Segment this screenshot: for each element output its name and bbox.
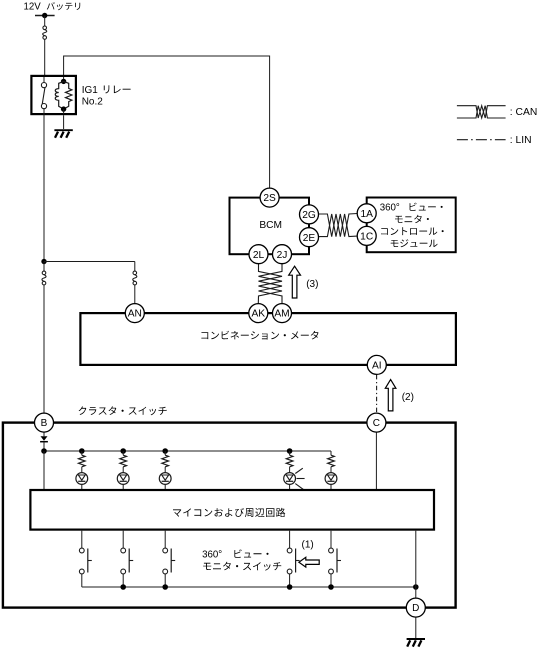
svg-text:(1): (1) — [302, 539, 314, 550]
pin 1A — [357, 204, 376, 223]
LED D2 — [122, 467, 124, 473]
svg-text:BCM: BCM — [259, 220, 282, 231]
fusible link F3 — [133, 271, 137, 275]
label cluster switch — [79, 406, 167, 415]
pin C — [367, 413, 386, 432]
battery node — [35, 15, 55, 17]
resistor R2 — [122, 451, 124, 455]
LED D4 — [289, 467, 291, 473]
wire F1 to relay — [44, 39, 46, 75]
svg-text:2E: 2E — [303, 233, 316, 244]
svg-text:2J: 2J — [277, 250, 288, 261]
pin 1C — [357, 226, 376, 245]
switch SW2 — [122, 531, 124, 549]
svg-text:2S: 2S — [263, 193, 276, 204]
CAN twisted pair BCM to module — [319, 214, 358, 237]
svg-text:(2): (2) — [402, 392, 414, 403]
pin 2E — [300, 228, 319, 247]
wire microcomputer to D — [415, 531, 417, 598]
legend CAN twisted pair symbol — [457, 106, 506, 118]
wire to fusible link F3 — [134, 262, 136, 273]
relay coil with parallel resistor — [63, 77, 65, 81]
wire relay coil to BCM 2S — [64, 56, 270, 188]
svg-text:: LIN: : LIN — [510, 135, 532, 146]
pin B — [35, 413, 54, 432]
legend LIN line — [457, 139, 506, 141]
pin 2J — [273, 245, 292, 264]
LED D1 — [81, 467, 83, 473]
cluster switch box — [3, 423, 456, 608]
BCM box — [230, 198, 310, 255]
wire junction to AN branch — [44, 261, 135, 263]
diode below B — [41, 436, 48, 441]
svg-text:2G: 2G — [302, 210, 316, 221]
LIN dash-dot AI to C — [376, 375, 378, 413]
svg-text:AM: AM — [274, 309, 289, 320]
svg-text:2L: 2L — [253, 250, 265, 261]
relay switch contact — [43, 77, 45, 83]
module 360 box — [367, 198, 456, 253]
LED D3 — [164, 467, 166, 473]
svg-text:1A: 1A — [360, 209, 373, 220]
pin AM — [273, 304, 292, 323]
resistor R5 — [330, 451, 332, 455]
relay IG1 No.2 box — [31, 76, 76, 114]
CAN twisted pair BCM to meter — [259, 264, 283, 304]
arrow (2) — [385, 380, 396, 411]
svg-text:C: C — [373, 418, 380, 429]
arrow (1) — [299, 557, 319, 567]
svg-text:AK: AK — [252, 309, 266, 320]
fusible link F1 — [43, 26, 47, 30]
LED supply rail — [44, 450, 331, 452]
svg-text:360°: 360° — [202, 550, 222, 561]
pin AN — [125, 304, 144, 323]
LED D4 indicator rays — [295, 468, 303, 473]
pin 2G — [300, 205, 319, 224]
junction node — [41, 259, 46, 264]
svg-text:No.2: No.2 — [82, 97, 104, 108]
svg-text:IG1: IG1 — [82, 85, 99, 96]
wire relay switch down to junction — [43, 114, 45, 261]
resistor R3 — [164, 451, 166, 455]
wire D to ground — [415, 617, 417, 638]
wire relay to ground — [63, 115, 65, 129]
svg-text:: CAN: : CAN — [510, 107, 537, 118]
wire F2 to pin B — [43, 285, 45, 413]
switch SW5 — [330, 531, 332, 549]
svg-text:AI: AI — [372, 361, 382, 372]
resistor R1 — [81, 451, 83, 455]
switch SW4 — [289, 531, 291, 549]
pin AI — [367, 355, 386, 374]
svg-text:12V: 12V — [24, 2, 42, 13]
svg-text:D: D — [412, 603, 419, 614]
resistor R4 — [289, 451, 291, 455]
svg-text:AN: AN — [128, 309, 142, 320]
svg-text:360°: 360° — [380, 203, 400, 214]
LED D5 — [330, 467, 332, 473]
fusible link F2 — [42, 271, 46, 275]
label combination meter — [201, 331, 318, 340]
arrow (3) — [289, 266, 301, 298]
pin D — [406, 598, 425, 617]
switch ground rail — [82, 586, 416, 588]
wire F3 to pin AN — [134, 285, 136, 304]
svg-text:(3): (3) — [306, 279, 318, 290]
wire diode to rail — [43, 442, 45, 451]
wire B to diode — [43, 432, 45, 436]
microcomputer box — [30, 490, 434, 530]
pin 2L — [249, 245, 268, 264]
label microcomputer and peripheral circuits — [173, 508, 285, 517]
combination meter box — [80, 313, 456, 365]
wire C to microcomputer — [375, 432, 377, 489]
svg-text:B: B — [41, 418, 48, 429]
wire to fusible link F2 — [43, 262, 45, 273]
switch SW1 — [81, 531, 83, 549]
switch SW3 — [164, 531, 166, 549]
pin AK — [249, 304, 268, 323]
pin 2S — [260, 188, 279, 207]
svg-text:1C: 1C — [360, 232, 373, 243]
ground below D — [407, 638, 425, 640]
wire battery down — [44, 16, 46, 27]
wire B line to microcomputer — [43, 451, 45, 489]
ground below relay — [54, 129, 72, 131]
